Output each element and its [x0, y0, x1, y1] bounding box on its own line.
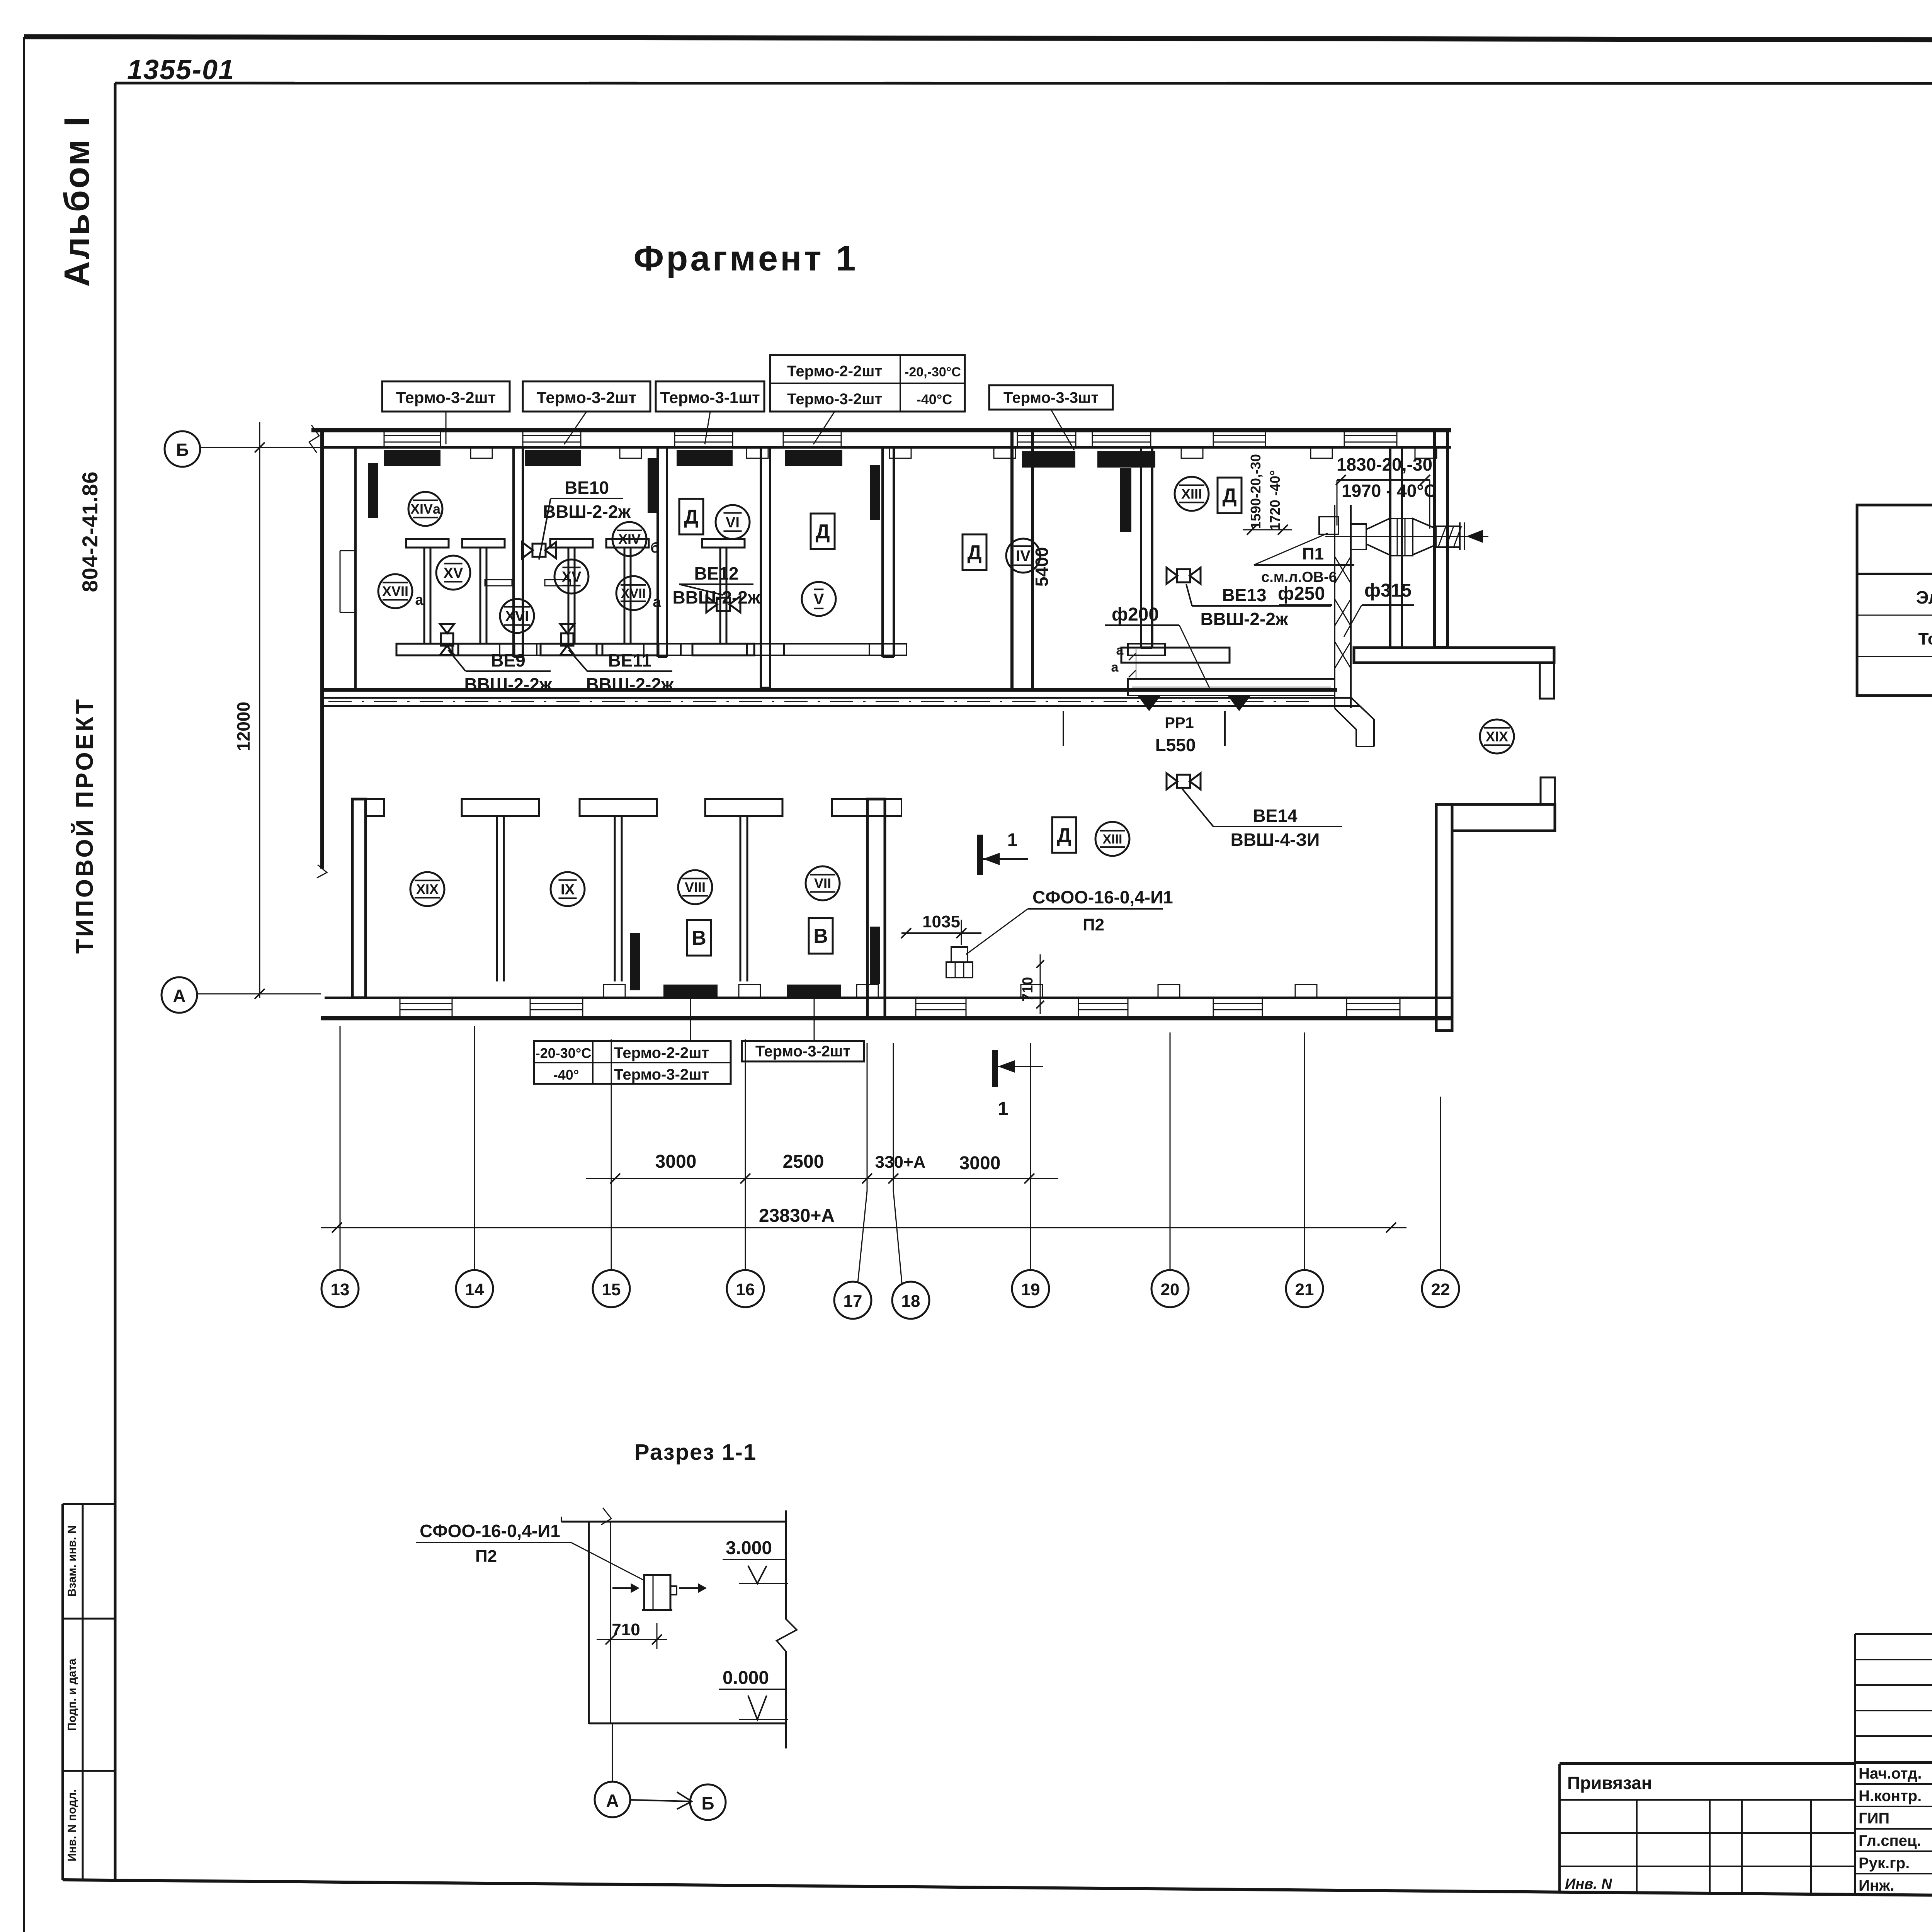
- svg-text:Разрез 1-1: Разрез 1-1: [634, 1440, 757, 1465]
- svg-text:BE13: BE13: [1222, 585, 1266, 605]
- svg-text:а: а: [653, 594, 661, 610]
- svg-text:IV: IV: [1016, 548, 1031, 565]
- svg-text:Б: Б: [176, 440, 189, 460]
- svg-text:20: 20: [1161, 1280, 1180, 1299]
- svg-text:23830+А: 23830+А: [759, 1206, 835, 1226]
- svg-text:А: А: [606, 1791, 619, 1811]
- svg-text:12000: 12000: [233, 702, 253, 751]
- svg-text:ф200: ф200: [1112, 604, 1159, 625]
- svg-text:2500: 2500: [783, 1151, 824, 1172]
- svg-text:1720 -40°: 1720 -40°: [1267, 470, 1283, 531]
- svg-text:710: 710: [1020, 977, 1036, 1001]
- svg-text:Взам. инв. N: Взам. инв. N: [66, 1525, 78, 1597]
- svg-text:-20-30°С: -20-30°С: [536, 1045, 591, 1061]
- svg-text:13: 13: [331, 1280, 350, 1299]
- svg-text:В: В: [692, 927, 706, 949]
- svg-text:XV: XV: [562, 569, 582, 585]
- svg-text:Инж.: Инж.: [1859, 1877, 1894, 1894]
- svg-text:а: а: [1111, 660, 1119, 675]
- svg-text:1: 1: [998, 1099, 1009, 1119]
- svg-text:XIII: XIII: [1181, 486, 1202, 502]
- svg-text:ВВШ-2-2ж: ВВШ-2-2ж: [586, 674, 673, 694]
- svg-text:14: 14: [465, 1280, 484, 1299]
- svg-text:3000: 3000: [959, 1153, 1001, 1173]
- svg-text:Д: Д: [1222, 485, 1236, 507]
- svg-text:BE12: BE12: [694, 563, 738, 583]
- svg-text:-20,-30°С: -20,-30°С: [905, 365, 961, 379]
- svg-text:Термо-3-2шт: Термо-3-2шт: [396, 388, 496, 406]
- svg-text:1970 - 40°С: 1970 - 40°С: [1342, 481, 1437, 501]
- svg-text:VII: VII: [814, 876, 831, 891]
- svg-text:СФОО-16-0,4-И1: СФОО-16-0,4-И1: [420, 1521, 560, 1541]
- svg-text:Термо-3-1шт: Термо-3-1шт: [660, 388, 760, 406]
- svg-text:BE14: BE14: [1253, 806, 1297, 826]
- svg-text:Д: Д: [967, 541, 981, 564]
- svg-text:21: 21: [1295, 1280, 1314, 1299]
- svg-text:804-2-41.86: 804-2-41.86: [78, 471, 102, 592]
- svg-text:Термо-2-2шт: Термо-2-2шт: [614, 1044, 709, 1061]
- svg-text:PP1: PP1: [1165, 714, 1194, 731]
- svg-text:Д: Д: [1057, 824, 1071, 847]
- svg-text:Нач.отд.: Нач.отд.: [1859, 1765, 1922, 1782]
- svg-text:П2: П2: [1083, 915, 1104, 934]
- svg-text:22: 22: [1431, 1280, 1450, 1299]
- svg-text:ВВШ-2-2ж: ВВШ-2-2ж: [464, 674, 552, 694]
- svg-text:1: 1: [1007, 830, 1018, 850]
- svg-text:XV: XV: [444, 565, 463, 581]
- svg-text:Д: Д: [815, 520, 830, 543]
- svg-text:П2: П2: [475, 1547, 497, 1566]
- svg-text:3000: 3000: [655, 1151, 697, 1172]
- svg-text:б: б: [650, 540, 659, 556]
- svg-text:3.000: 3.000: [726, 1538, 772, 1558]
- svg-text:Термо-3-3шт: Термо-3-3шт: [1003, 389, 1099, 406]
- svg-text:1355-01: 1355-01: [127, 54, 235, 85]
- svg-text:1830-20,-30: 1830-20,-30: [1337, 454, 1432, 474]
- svg-text:Подп. и дата: Подп. и дата: [66, 1658, 78, 1731]
- svg-text:Термо-3-2шт: Термо-3-2шт: [755, 1043, 850, 1060]
- svg-text:П1: П1: [1302, 544, 1324, 563]
- svg-text:Гл.спец.: Гл.спец.: [1859, 1832, 1921, 1849]
- svg-text:Электрорадиатор: Электрорадиатор: [1916, 587, 1932, 607]
- svg-text:Фрагмент 1: Фрагмент 1: [634, 239, 858, 278]
- svg-text:0.000: 0.000: [723, 1668, 769, 1688]
- svg-text:XVII: XVII: [382, 583, 408, 599]
- svg-text:XVI: XVI: [505, 608, 529, 624]
- svg-text:ГИП: ГИП: [1859, 1810, 1889, 1827]
- svg-text:5400: 5400: [1032, 547, 1052, 587]
- svg-text:СФОО-16-0,4-И1: СФОО-16-0,4-И1: [1032, 887, 1173, 907]
- svg-text:Д: Д: [684, 506, 698, 528]
- svg-text:1035: 1035: [922, 912, 960, 931]
- svg-text:XIVа: XIVа: [410, 501, 441, 517]
- svg-text:330+А: 330+А: [875, 1153, 926, 1172]
- svg-text:VIII: VIII: [685, 879, 706, 895]
- svg-text:Термо-3-2шт: Термо-3-2шт: [537, 388, 636, 406]
- svg-text:IX: IX: [561, 881, 575, 898]
- svg-text:XIX: XIX: [416, 881, 439, 897]
- svg-text:BE10: BE10: [565, 478, 609, 498]
- svg-text:-40°: -40°: [553, 1067, 579, 1083]
- svg-text:ВВШ-2-2ж: ВВШ-2-2ж: [543, 502, 631, 522]
- svg-text:ВВШ-2-2ж: ВВШ-2-2ж: [1200, 609, 1288, 629]
- svg-text:L550: L550: [1155, 735, 1196, 755]
- svg-text:XIX: XIX: [1486, 729, 1508, 745]
- svg-text:XIV: XIV: [618, 531, 641, 547]
- svg-text:ф315: ф315: [1364, 580, 1412, 601]
- svg-text:-40°С: -40°С: [917, 391, 952, 407]
- svg-text:ВВШ-2-2ж: ВВШ-2-2ж: [672, 587, 760, 607]
- svg-text:Термо-3-2шт: Термо-3-2шт: [787, 391, 882, 408]
- svg-text:1590-20,-30: 1590-20,-30: [1248, 454, 1264, 529]
- svg-text:VI: VI: [726, 514, 740, 531]
- svg-text:19: 19: [1021, 1280, 1040, 1299]
- svg-text:XIII: XIII: [1102, 832, 1122, 847]
- svg-text:V: V: [814, 591, 824, 608]
- svg-text:XVII: XVII: [621, 586, 646, 601]
- svg-text:BE9: BE9: [491, 650, 525, 670]
- svg-text:ф250: ф250: [1278, 583, 1325, 604]
- svg-text:То: То: [1918, 629, 1932, 648]
- svg-text:BE11: BE11: [608, 650, 652, 670]
- svg-text:Н.контр.: Н.контр.: [1859, 1787, 1922, 1804]
- svg-text:Термо-2-2шт: Термо-2-2шт: [787, 363, 882, 380]
- svg-text:Термо-3-2шт: Термо-3-2шт: [614, 1066, 709, 1083]
- svg-text:Б: Б: [701, 1793, 714, 1813]
- svg-text:18: 18: [901, 1292, 920, 1311]
- svg-text:а: а: [415, 592, 423, 608]
- svg-text:Инв. N подл.: Инв. N подл.: [66, 1789, 78, 1861]
- svg-text:ВВШ-4-ЗИ: ВВШ-4-ЗИ: [1231, 830, 1320, 850]
- svg-text:15: 15: [602, 1280, 621, 1299]
- svg-text:ТИПОВОЙ ПРОЕКТ: ТИПОВОЙ ПРОЕКТ: [71, 697, 98, 954]
- svg-text:а: а: [1116, 643, 1124, 658]
- svg-text:с.м.л.ОВ-6: с.м.л.ОВ-6: [1261, 569, 1337, 585]
- svg-text:710: 710: [612, 1620, 640, 1639]
- svg-text:Альбом I: Альбом I: [57, 115, 97, 287]
- svg-text:А: А: [173, 986, 185, 1006]
- svg-text:Инв. N: Инв. N: [1565, 1876, 1612, 1892]
- svg-text:Рук.гр.: Рук.гр.: [1859, 1855, 1910, 1872]
- svg-text:17: 17: [844, 1292, 862, 1311]
- svg-text:Привязан: Привязан: [1567, 1773, 1652, 1793]
- svg-text:В: В: [813, 925, 828, 947]
- svg-text:16: 16: [736, 1280, 755, 1299]
